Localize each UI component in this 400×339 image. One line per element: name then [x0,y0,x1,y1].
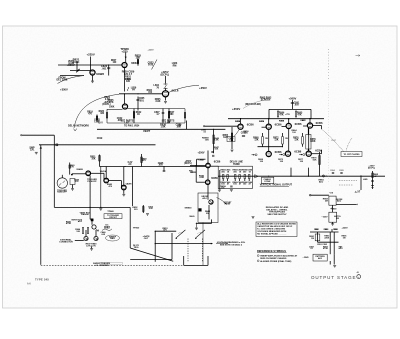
faint label [148,50,155,52]
callout text [229,137,235,140]
R884 label [318,179,324,182]
wire [76,62,78,71]
wire [137,59,139,66]
Q846 arrow [85,237,87,239]
junction [290,176,291,177]
svg-text:.005: .005 [294,104,299,106]
screen supply box [269,108,311,110]
tiny label [330,193,334,195]
junction [268,176,269,177]
svg-text:(DCPL): (DCPL) [102,103,110,106]
wire to plate [313,125,322,127]
R863 label [279,120,285,122]
wire [103,173,105,180]
geometry box [198,193,218,223]
fold mark dotted [327,49,329,80]
note line [257,225,293,228]
wire [308,128,310,151]
knob blob [199,209,202,212]
junction [309,118,310,119]
ground [164,100,167,102]
R893 label [324,229,330,231]
wire [231,127,233,149]
wire [89,176,91,208]
svg-text:8.2K: 8.2K [223,137,228,139]
svg-text:V B: V B [330,193,334,195]
wire vert link [97,128,188,130]
termination parts right [332,172,334,174]
wattage [265,138,268,140]
svg-text:C855: C855 [241,132,247,134]
wire plate lead [309,119,311,124]
tube V841 [104,178,109,183]
ground [122,193,125,195]
resistor R833 [137,60,139,64]
capacitor C855 [242,135,245,137]
geometry label [201,196,208,198]
delay line diagonal [130,248,173,261]
svg-text:C822: C822 [117,118,123,120]
coax squiggle [102,229,112,231]
parts note box [256,222,297,237]
pin label [189,170,193,172]
coil [371,185,374,188]
V877 type [315,149,322,153]
R876 label [293,138,299,140]
R885 label [373,174,379,176]
C827 label [154,112,160,114]
transistor Q847 [94,236,98,240]
wire stub [196,223,198,228]
takeoff label [57,190,67,192]
C833 label [148,62,155,65]
wire offset curve [217,198,227,205]
svg-text:+225V: +225V [87,53,95,57]
svg-text:2M: 2M [325,200,328,202]
svg-text:56K: 56K [313,159,317,161]
svg-text:330K: 330K [310,141,316,143]
wire signal out [252,175,385,177]
wire [186,121,188,130]
svg-text:1M: 1M [315,229,318,231]
resistor R845 [87,228,89,234]
wire dashed linkage [187,239,189,263]
+500V feed [289,96,297,100]
R834 label [147,89,153,92]
resistor R840 [69,165,71,168]
wire [333,242,335,254]
TP850 label [133,228,140,230]
resistor R868 [262,137,264,145]
svg-text:15K: 15K [205,140,209,142]
SW850 label [185,207,193,209]
junction [89,207,90,208]
+350V label [60,87,68,91]
CRT label [343,153,360,156]
R865 label [297,112,303,114]
resistor R849b [141,157,143,163]
trimmer arrow [152,60,158,70]
R845 label [199,174,205,177]
svg-text:R820: R820 [99,111,105,113]
svg-text:6AW8: 6AW8 [96,72,104,76]
svg-text:+225V: +225V [148,50,155,52]
junction [155,243,156,244]
title OUTPUT STAGE [311,275,356,280]
svg-text:TRIG: TRIG [133,247,138,249]
V863 type [295,122,302,126]
svg-text:12K: 12K [254,140,259,142]
svg-text:DEL LINE: DEL LINE [57,79,68,82]
svg-text:(DCPL): (DCPL) [184,163,192,165]
junction [288,118,289,119]
RC termination group [242,169,248,172]
ground [35,151,38,153]
tube V869 [266,151,271,156]
R854 label [235,120,241,123]
V867 type [316,121,323,125]
svg-text:R822: R822 [136,112,142,114]
pattern label [315,255,325,258]
connector [255,175,258,178]
wire [262,133,264,137]
junction [288,118,289,119]
svg-text:1M: 1M [334,229,337,231]
svg-text:DELAY NETWORK: DELAY NETWORK [68,125,89,128]
L829 label [131,87,137,90]
svg-text:TO TRIGGER: TO TRIGGER [107,215,119,217]
svg-text:PICKOFF: PICKOFF [87,181,97,183]
wire box bottom [130,259,172,261]
svg-text:.005: .005 [158,165,163,167]
to-pin note [124,124,140,127]
supply label [185,161,192,163]
svg-text:C867: C867 [331,140,337,142]
svg-text:OUTPUT STAGE: OUTPUT STAGE [311,275,356,280]
wire screen divider [137,97,139,111]
value 100K [109,107,115,109]
plate load column V843 [213,129,215,153]
wire input top [22,134,55,136]
ground [146,213,149,215]
capacitor C886 [371,180,374,182]
tube V828 [122,62,127,67]
wire [321,126,323,130]
svg-text:10K: 10K [91,159,96,161]
svg-text:1M: 1M [343,237,346,239]
svg-text:+225: +225 [121,49,128,53]
wire [90,218,92,220]
tube V845 [206,180,210,184]
note line [257,228,285,230]
wire [329,242,331,254]
pot R858 box [329,196,336,205]
wire [207,193,209,200]
svg-text:CONN: CONN [264,181,271,183]
geom label [336,199,343,201]
gnd label [302,257,309,259]
Q847 arrow [95,237,97,239]
note [162,119,175,122]
resistor R823 [106,113,108,119]
R841 label [66,220,72,223]
+225V label [87,53,95,57]
svg-text:3.9K: 3.9K [155,100,160,103]
cathode feed column [219,170,221,190]
R835 label [155,98,161,101]
ground [231,149,234,151]
pickoff lamp envelope [57,178,67,188]
R864b label [291,129,297,132]
CRT plates box [341,152,362,157]
junction [108,64,109,65]
wire [288,129,290,152]
wire [120,181,122,188]
tube V842 [122,185,127,190]
wire [129,207,131,248]
wire [128,108,186,110]
arrow to reference [252,154,255,156]
wire [268,129,270,151]
dlyd trig label [133,245,140,247]
ground mark [252,216,255,218]
svg-text:6.8K: 6.8K [200,177,205,179]
wattage [285,138,288,140]
C884 label [330,169,336,172]
wire [196,222,212,224]
wire [290,168,292,176]
wire [70,70,90,72]
inductor L834 [164,84,168,89]
wire [91,172,105,174]
VERT label [143,129,151,133]
svg-text:(DCPL): (DCPL) [368,168,375,170]
wire drop to sweep mag [132,167,134,207]
wire [107,108,123,110]
svg-text:15K: 15K [214,149,218,151]
capacitor C827 [162,112,165,114]
R873 label [278,159,284,161]
C897 label [309,246,315,248]
svg-text:2M: 2M [336,218,339,220]
wire [208,205,210,219]
svg-text:2.7K: 2.7K [105,98,110,101]
external connector label [60,239,72,242]
R878 label [310,139,316,141]
values [86,243,98,246]
R839 label [160,124,166,127]
wire dashed to CRT [322,129,345,152]
wire plate lead [240,119,242,124]
wire [154,231,156,262]
svg-text:1W: 1W [265,138,268,140]
supply label [103,101,110,104]
label box [104,214,122,219]
faint wire [339,184,353,186]
wire [95,230,97,236]
arrowhead [40,147,42,149]
tube V873 [285,151,290,156]
tube V822 [90,70,95,75]
wire [282,133,284,137]
wire [302,144,304,147]
svg-text:LIST: LIST [125,123,131,125]
wire [372,171,374,189]
svg-text:TP850: TP850 [133,228,140,230]
input terminal [21,135,22,136]
transistor legs [210,201,213,204]
svg-text:1W: 1W [285,138,288,140]
arrowhead [211,243,213,245]
callout label box [227,137,235,142]
C839 label [176,124,182,127]
wire [72,185,74,189]
+350V label [232,107,240,111]
resistor R845D [213,135,215,144]
R824 label [104,96,110,99]
junction [137,64,138,65]
ground [331,223,334,225]
wire lower link [54,206,130,208]
transistor emitter arrow [95,229,98,232]
screen note [260,97,272,99]
junction [155,231,156,232]
R844 label [75,228,81,231]
wire [207,184,209,193]
wire [99,155,101,167]
wire +350 bus [228,118,324,120]
R891 label [309,236,315,238]
junction blob [71,174,73,176]
V873 type [294,149,301,153]
R868 label [253,138,259,140]
grid wire V854 [205,125,238,127]
wire cathode [92,75,94,81]
pot block [91,219,93,221]
svg-text:.001: .001 [139,99,144,102]
pot box R897 [313,254,327,261]
wire [329,261,331,265]
svg-text:TERM: TERM [233,164,240,166]
R833 label [135,53,142,57]
wire [333,254,335,264]
delta 57 mark [354,190,361,194]
wire to plate [311,153,321,155]
R855 label [223,135,229,137]
svg-text:RM: RM [173,64,177,67]
V845 type [211,176,218,180]
wire [107,122,185,124]
connector on signal line [322,175,324,177]
R879 label [311,157,317,159]
transistor Q845 [92,225,96,229]
wire [109,180,122,182]
terminal [203,126,204,127]
termination label [230,161,244,164]
pickoff label [87,179,97,181]
resistor R837 [184,113,186,119]
wire [207,151,209,164]
wire dashed [346,138,352,151]
svg-text:+350V: +350V [197,151,204,154]
vert pos label [71,219,82,221]
svg-text:C827: C827 [154,112,160,114]
wire [317,232,319,242]
R827 label [169,112,175,114]
R853 label [162,228,168,230]
svg-text:SCREEN: SCREEN [261,99,271,101]
arrowhead [356,204,357,205]
wire to +350 rail curve [168,85,199,92]
wire [91,221,93,225]
V834 type [172,88,179,92]
switch 2 [196,230,205,238]
wire [155,230,176,232]
svg-text:POINT: POINT [224,204,231,206]
junction [124,93,125,94]
capacitor C823 [107,67,110,69]
wire [207,168,209,180]
R849b label [141,157,147,160]
wire [211,219,213,223]
L833 label [172,62,178,65]
wire [282,144,284,147]
wire [258,146,283,148]
inductor L829 [127,87,128,91]
svg-text:TYPE 545: TYPE 545 [35,278,49,282]
wire signal through box [218,175,252,177]
switch gang box [183,256,185,265]
ground [90,248,93,250]
type label [35,278,49,282]
svg-text:R827: R827 [169,112,175,114]
wire cathode V828 down [124,68,126,92]
svg-text:R862 R863: R862 R863 [260,97,272,99]
wire heater return [100,167,102,208]
wire [196,181,205,183]
from delay line label [58,77,65,80]
arrow to reference [299,154,302,156]
wire [89,207,91,219]
reference symbols title [257,249,286,253]
switch arc [178,232,183,235]
pot wiper blob [77,70,79,72]
svg-text:12K: 12K [274,140,279,142]
switch 1 [176,230,185,238]
swp label [29,147,35,149]
small comp column [96,115,98,122]
R846 label [214,137,220,140]
capacitor C843 [211,151,213,153]
lamp marks [59,181,65,186]
note line [257,232,287,235]
R825 label [108,99,115,102]
wire from delay line curve [58,76,85,84]
wire heater bus [100,166,207,168]
gate out label [143,235,151,238]
chassis labels [93,262,111,265]
V822 type [96,72,104,76]
R852 label [132,207,138,209]
wire [332,205,334,212]
resistor R891 [315,234,320,241]
wire [307,128,309,134]
L885 label [363,179,368,181]
junction [196,165,197,166]
+225V dcpl label [161,70,169,74]
arrow to reference [279,154,282,156]
R897 label [323,246,329,248]
